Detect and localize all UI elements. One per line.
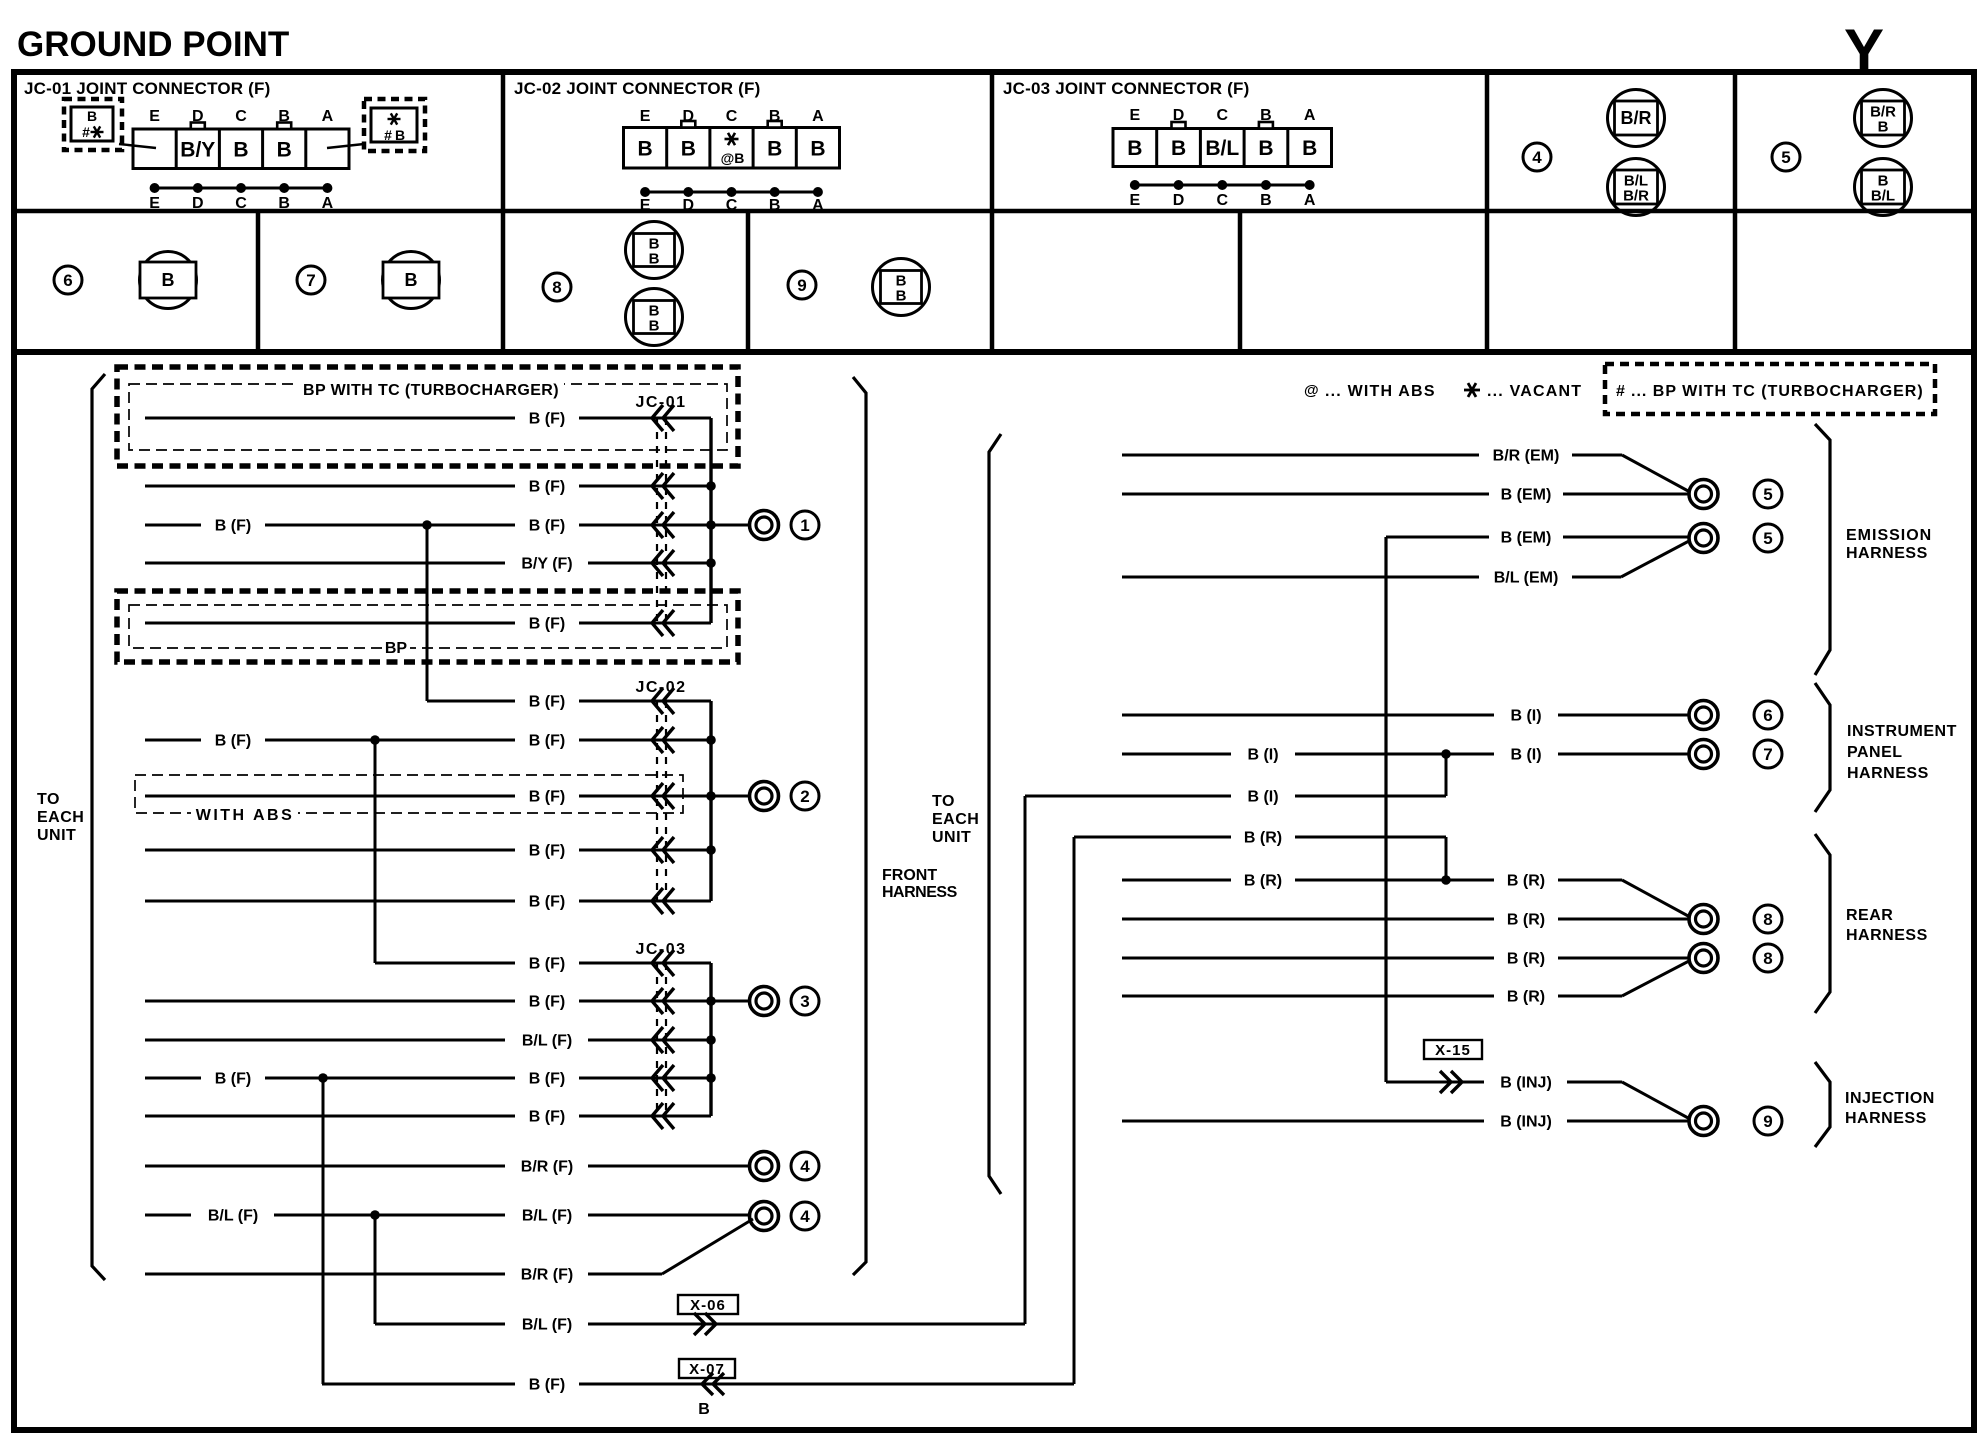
branch vertical from B/L wire down to X-06 — [370, 1210, 380, 1324]
wire B/R (F) to ground 4 upper — [145, 1159, 750, 1176]
svg-text:9: 9 — [797, 276, 806, 295]
trunk vertical from B (EM) lower down to X-15 — [1384, 537, 1387, 1082]
wire B (R) diagonal to ground 8 upper — [1122, 873, 1690, 918]
wire B (R) from X-07 joining rear feed — [1074, 830, 1446, 847]
svg-text:B: B — [1260, 107, 1272, 124]
legend BP with TC dashed box — [1605, 364, 1935, 414]
wire B (I) to ground 7 — [1122, 747, 1689, 764]
svg-text:B: B — [87, 108, 97, 124]
svg-text:B/R: B/R — [1621, 108, 1652, 128]
wire B/L (F) JC-03 pin C — [145, 1027, 711, 1053]
svg-text:B (F): B (F) — [529, 789, 565, 806]
svg-text:B: B — [1878, 119, 1889, 136]
ground number 7 — [1754, 740, 1782, 768]
svg-text:#: # — [1616, 383, 1625, 400]
dashed option box BP WITH TC (TURBOCHARGER) thick — [117, 367, 738, 466]
label TO EACH UNIT right — [932, 793, 979, 846]
ground number 1 — [791, 511, 819, 539]
label TO EACH UNIT left — [37, 791, 84, 844]
connector X-07 label box — [679, 1359, 735, 1378]
wire B (F) JC-01 pin E — [145, 405, 711, 431]
svg-text:EACH: EACH — [932, 811, 979, 828]
svg-text:A: A — [322, 195, 334, 212]
svg-text:D: D — [192, 195, 204, 212]
ground number 8 upper — [1754, 905, 1782, 933]
svg-text:B: B — [767, 137, 782, 160]
svg-text:B (F): B (F) — [215, 518, 251, 535]
ground number 4 upper — [791, 1152, 819, 1180]
wire B (F) JC-02 pin A — [145, 888, 711, 914]
wire B (F) JC-01 pin A (BP) — [145, 610, 711, 636]
svg-text:B: B — [1127, 137, 1142, 160]
svg-text:@: @ — [1304, 382, 1319, 399]
svg-text:B/R (EM): B/R (EM) — [1493, 448, 1560, 465]
svg-text:#: # — [384, 127, 392, 143]
svg-text:EMISSION: EMISSION — [1846, 527, 1932, 544]
wire B (F) through X-07 to rear harness — [322, 1373, 1074, 1395]
svg-text:B (F): B (F) — [529, 518, 565, 535]
svg-text:B (EM): B (EM) — [1501, 487, 1552, 504]
ground 4 connector circle B/L B/R — [1608, 159, 1665, 216]
emission harness bracket — [1815, 424, 1830, 675]
ground symbol 4 lower — [750, 1202, 779, 1231]
svg-text:D: D — [683, 108, 695, 125]
svg-text:B (R): B (R) — [1507, 989, 1545, 1006]
svg-text:INSTRUMENT: INSTRUMENT — [1847, 723, 1957, 740]
svg-text:4: 4 — [800, 1207, 810, 1226]
wire B (F) JC-01 pin C to ground 1 — [145, 512, 750, 538]
ground symbol 5 upper — [1689, 480, 1718, 509]
svg-text:8: 8 — [1763, 949, 1772, 968]
svg-text:4: 4 — [1532, 148, 1542, 167]
svg-text:B/L (F): B/L (F) — [522, 1317, 572, 1334]
svg-text:B/L: B/L — [1871, 188, 1895, 205]
svg-text:HARNESS: HARNESS — [1845, 1110, 1927, 1127]
wire B (EM) to ground 5 upper — [1122, 487, 1689, 504]
ground symbol 8 upper — [1689, 905, 1718, 934]
label INJECTION HARNESS — [1845, 1090, 1935, 1127]
svg-text:B (I): B (I) — [1510, 708, 1541, 725]
ground 5 connector circle B/R B — [1855, 90, 1912, 147]
injection harness bracket — [1815, 1062, 1830, 1147]
ground 9 connector circle B B — [873, 259, 930, 316]
JC-02 joint connector cell title — [514, 79, 761, 98]
ground point 7 summary cell — [297, 266, 325, 294]
svg-text:B (I): B (I) — [1247, 789, 1278, 806]
JC-03 label — [635, 941, 686, 958]
wire B (INJ) through X-15 diagonal to ground 9 — [1386, 1071, 1690, 1119]
wire B (F) JC-02 pin B — [145, 837, 711, 863]
svg-text:B/Y (F): B/Y (F) — [521, 556, 572, 573]
wire B (F) JC-03 pin B — [145, 1065, 711, 1091]
svg-text:E: E — [1130, 107, 1141, 124]
svg-text:B (INJ): B (INJ) — [1500, 1075, 1552, 1092]
svg-text:B (F): B (F) — [529, 956, 565, 973]
svg-text:A: A — [1304, 192, 1316, 209]
svg-text:B/L (F): B/L (F) — [208, 1208, 258, 1225]
svg-text:B: B — [395, 127, 405, 143]
branch vertical from JC-02 pin D wire down to JC-03 — [370, 735, 380, 963]
svg-text:B: B — [405, 270, 418, 290]
wire B (INJ) to ground 9 — [1122, 1114, 1689, 1131]
wire B (EM) to ground 5 lower — [1386, 530, 1689, 547]
instrument panel harness bracket — [1815, 683, 1830, 812]
svg-text:B (F): B (F) — [529, 1109, 565, 1126]
svg-text:B (F): B (F) — [529, 894, 565, 911]
svg-text:B/L (EM): B/L (EM) — [1494, 570, 1559, 587]
ground 4 connector circle B/R — [1608, 90, 1665, 147]
JC-03 collector vertical — [706, 963, 716, 1116]
ground 5 connector circle B B/L — [1855, 159, 1912, 216]
svg-text:B (R): B (R) — [1507, 873, 1545, 890]
svg-text:BP WITH TC (TURBOCHARGER): BP WITH TC (TURBOCHARGER) — [303, 382, 559, 399]
JC-01 dashed option box right (* #B) — [327, 99, 425, 151]
wire B/R (EM) diagonal to ground 5 upper — [1122, 448, 1690, 493]
svg-text:E: E — [149, 195, 160, 212]
svg-text:D: D — [1173, 107, 1185, 124]
JC-01 joint connector cell title — [24, 79, 271, 98]
JC-02 label — [635, 679, 686, 696]
ground symbol 2 — [750, 782, 779, 811]
JC-01 connector body — [133, 108, 349, 212]
svg-text:C: C — [1216, 192, 1228, 209]
ground point 4 summary cell — [1523, 143, 1551, 171]
svg-text:A: A — [322, 108, 334, 125]
svg-text:B: B — [896, 288, 907, 305]
svg-text:B (I): B (I) — [1510, 747, 1541, 764]
svg-text:JC-02: JC-02 — [635, 679, 686, 696]
ground symbol 4 upper — [750, 1152, 779, 1181]
legend with ABS — [1304, 382, 1436, 400]
svg-text:PANEL: PANEL — [1847, 744, 1903, 761]
svg-text:B: B — [769, 197, 781, 214]
svg-text:... VACANT: ... VACANT — [1487, 383, 1582, 400]
wire B/L (F) through X-06 to instrument panel — [375, 1313, 1025, 1335]
ground symbol 8 lower — [1689, 944, 1718, 973]
junction vertical B (R) — [1441, 837, 1451, 885]
wire B (I) from X-06 joining ground 7 wire — [1025, 789, 1446, 806]
svg-text:B (R): B (R) — [1244, 830, 1282, 847]
svg-text:D: D — [1173, 192, 1185, 209]
svg-text:B (F): B (F) — [529, 479, 565, 496]
wire B (F) JC-03 pin D to ground 3 — [145, 988, 750, 1014]
svg-text:INJECTION: INJECTION — [1845, 1090, 1935, 1107]
svg-text:B: B — [278, 195, 290, 212]
svg-text:B/L: B/L — [1205, 137, 1239, 160]
svg-text:B (F): B (F) — [529, 411, 565, 428]
svg-text:B (R): B (R) — [1244, 873, 1282, 890]
JC-02 connector dashed bus — [657, 701, 666, 901]
JC-01 connector dashed bus — [657, 418, 666, 623]
branch vertical from JC-03 pin B wire down to X-07 — [318, 1073, 328, 1384]
wire B/Y (F) JC-01 pin B — [145, 550, 711, 576]
JC-01 label — [635, 394, 686, 411]
svg-text:HARNESS: HARNESS — [882, 884, 958, 901]
svg-text:4: 4 — [800, 1157, 810, 1176]
svg-text:B (F): B (F) — [529, 843, 565, 860]
svg-text:FRONT: FRONT — [882, 867, 937, 884]
ground number 9 — [1754, 1107, 1782, 1135]
ground 8 connector circle B B lower — [626, 289, 683, 346]
dashed option box WITH ABS — [135, 775, 683, 824]
dashed option box BP WITH TC thin inner — [129, 382, 727, 450]
branch vertical from JC-01 pin C wire down to JC-02 — [422, 520, 432, 701]
svg-text:B: B — [1171, 137, 1186, 160]
ground point 8 summary cell — [543, 273, 571, 301]
svg-text:JC-02 JOINT CONNECTOR (F): JC-02 JOINT CONNECTOR (F) — [514, 79, 761, 98]
ground symbol 9 — [1689, 1107, 1718, 1136]
wire B (F) JC-02 pin E — [427, 688, 711, 714]
svg-text:B/L (F): B/L (F) — [522, 1208, 572, 1225]
JC-03 joint connector cell title — [1003, 79, 1250, 98]
svg-text:UNIT: UNIT — [37, 827, 76, 844]
svg-text:... BP WITH TC (TURBOCHARGER): ... BP WITH TC (TURBOCHARGER) — [1631, 383, 1924, 400]
svg-text:B/L (F): B/L (F) — [522, 1033, 572, 1050]
svg-text:E: E — [1130, 192, 1141, 209]
svg-text:HARNESS: HARNESS — [1847, 765, 1929, 782]
wire B (R) diagonal to ground 8 lower — [1122, 961, 1689, 1006]
JC-03 connector body — [1113, 107, 1332, 209]
JC-03 connector dashed bus — [657, 963, 666, 1116]
JC-02 connector body — [624, 108, 840, 214]
main diagram frame — [14, 352, 1974, 1430]
svg-text:C: C — [726, 108, 738, 125]
svg-text:GROUND POINT: GROUND POINT — [17, 25, 289, 64]
svg-text:X-06: X-06 — [690, 1297, 726, 1314]
ground point 6 summary cell — [54, 266, 82, 294]
svg-text:B/R (F): B/R (F) — [521, 1159, 573, 1176]
svg-text:REAR: REAR — [1846, 907, 1893, 924]
svg-text:A: A — [812, 197, 824, 214]
label INSTRUMENT PANEL HARNESS — [1847, 723, 1957, 782]
ground symbol 5 lower — [1689, 524, 1718, 553]
junction vertical B (I) — [1441, 749, 1451, 796]
ground 6 connector circle B — [140, 252, 197, 309]
svg-text:#: # — [82, 124, 90, 140]
svg-text:3: 3 — [800, 992, 809, 1011]
JC-01 dashed option box left (B #*) — [64, 99, 156, 150]
svg-text:B (F): B (F) — [529, 1071, 565, 1088]
svg-text:B: B — [278, 108, 290, 125]
svg-text:B: B — [1302, 137, 1317, 160]
svg-text:TO: TO — [932, 793, 955, 810]
svg-text:B (R): B (R) — [1507, 951, 1545, 968]
svg-text:B/R: B/R — [1623, 188, 1649, 205]
svg-text:B: B — [233, 138, 248, 161]
JC-02 collector vertical — [706, 701, 716, 901]
svg-text:HARNESS: HARNESS — [1846, 927, 1928, 944]
svg-text:HARNESS: HARNESS — [1846, 545, 1928, 562]
svg-text:B: B — [1260, 192, 1272, 209]
ground number 8 lower — [1754, 944, 1782, 972]
svg-text:C: C — [1216, 107, 1228, 124]
svg-text:B: B — [681, 137, 696, 160]
svg-text:C: C — [235, 195, 247, 212]
svg-text:7: 7 — [306, 271, 315, 290]
svg-text:2: 2 — [800, 787, 809, 806]
wire B/L (F) to ground 4 lower — [145, 1208, 750, 1225]
legend vacant — [1464, 383, 1582, 400]
ground 8 connector circle B B upper — [626, 222, 683, 279]
ground symbol 3 — [750, 987, 779, 1016]
ground number 6 — [1754, 701, 1782, 729]
ground 7 connector circle B — [383, 252, 440, 309]
table frame — [14, 72, 1974, 352]
label B below X-07 — [698, 1401, 710, 1418]
svg-text:E: E — [640, 108, 651, 125]
svg-text:... WITH ABS: ... WITH ABS — [1325, 383, 1436, 400]
svg-text:JC-01 JOINT CONNECTOR (F): JC-01 JOINT CONNECTOR (F) — [24, 79, 271, 98]
ground symbol 1 — [750, 511, 779, 540]
connector X-06 label box — [678, 1295, 738, 1314]
wire B/L (EM) diagonal to ground 5 lower — [1122, 541, 1689, 587]
right bracket of front harness section — [853, 377, 866, 1275]
ground symbol 6 — [1689, 701, 1718, 730]
dashed option box BP thin inner — [129, 605, 727, 657]
svg-text:B: B — [638, 137, 653, 160]
svg-text:7: 7 — [1763, 745, 1772, 764]
svg-text:B (R): B (R) — [1507, 912, 1545, 929]
svg-text:5: 5 — [1763, 485, 1772, 504]
dashed option box BP thick — [117, 591, 738, 662]
svg-text:B (F): B (F) — [529, 733, 565, 750]
svg-text:8: 8 — [552, 278, 561, 297]
svg-text:A: A — [812, 108, 824, 125]
svg-text:JC-03 JOINT CONNECTOR (F): JC-03 JOINT CONNECTOR (F) — [1003, 79, 1250, 98]
wire B (R) to ground 8 upper — [1122, 912, 1689, 929]
ground symbol 7 — [1689, 740, 1718, 769]
svg-text:B: B — [649, 318, 660, 335]
svg-text:8: 8 — [1763, 910, 1772, 929]
svg-text:B (INJ): B (INJ) — [1500, 1114, 1552, 1131]
JC-01 collector vertical — [706, 418, 716, 623]
svg-text:9: 9 — [1763, 1112, 1772, 1131]
svg-text:B (F): B (F) — [215, 1071, 251, 1088]
svg-text:B/R (F): B/R (F) — [521, 1267, 573, 1284]
vertical riser of X-06 wire — [1024, 796, 1027, 1324]
ground number 2 — [791, 782, 819, 810]
svg-text:B (F): B (F) — [529, 616, 565, 633]
wire B (F) JC-01 pin D — [145, 473, 711, 499]
wire B (I) to ground 6 — [1122, 708, 1689, 725]
svg-text:@B: @B — [721, 150, 745, 166]
svg-text:B: B — [810, 137, 825, 160]
svg-text:E: E — [640, 197, 651, 214]
svg-text:1: 1 — [800, 516, 809, 535]
svg-text:C: C — [235, 108, 247, 125]
svg-text:JC-03: JC-03 — [635, 941, 686, 958]
ground number 5 upper — [1754, 480, 1782, 508]
svg-text:B (F): B (F) — [529, 994, 565, 1011]
svg-text:B: B — [649, 251, 660, 268]
svg-text:6: 6 — [1763, 706, 1772, 725]
svg-text:6: 6 — [63, 271, 72, 290]
svg-text:E: E — [149, 108, 160, 125]
left bracket TO EACH UNIT (front) — [92, 374, 105, 1280]
svg-text:EACH: EACH — [37, 809, 84, 826]
svg-text:WITH ABS: WITH ABS — [196, 807, 295, 824]
svg-text:B: B — [277, 138, 292, 161]
connector X-15 label box — [1424, 1040, 1482, 1059]
page title GROUND POINT — [17, 25, 289, 64]
svg-text:B: B — [698, 1401, 710, 1418]
svg-text:D: D — [683, 197, 695, 214]
svg-text:B (F): B (F) — [215, 733, 251, 750]
wire B/R (F) diagonal to ground 4 lower — [145, 1219, 753, 1284]
wire B (F) JC-03 pin E — [375, 950, 711, 976]
ground point 5 summary cell — [1772, 143, 1800, 171]
svg-text:B: B — [769, 108, 781, 125]
vertical riser of X-07 wire — [1073, 837, 1076, 1384]
svg-text:B (I): B (I) — [1247, 747, 1278, 764]
wire B (R) to ground 8 lower — [1122, 951, 1689, 968]
wire B (F) JC-03 pin A — [145, 1103, 711, 1129]
svg-text:B: B — [162, 270, 175, 290]
label FRONT HARNESS — [882, 867, 958, 901]
page code Y — [1844, 17, 1884, 84]
ground point 9 summary cell — [788, 271, 816, 299]
rear harness bracket — [1815, 834, 1830, 1013]
svg-text:D: D — [192, 108, 204, 125]
svg-text:5: 5 — [1781, 148, 1790, 167]
svg-text:X-15: X-15 — [1435, 1042, 1471, 1059]
svg-text:B (EM): B (EM) — [1501, 530, 1552, 547]
svg-text:BP: BP — [385, 640, 408, 657]
svg-text:B/Y: B/Y — [180, 138, 215, 161]
svg-text:B (F): B (F) — [529, 694, 565, 711]
svg-text:TO: TO — [37, 791, 60, 808]
svg-text:5: 5 — [1763, 529, 1772, 548]
ground number 4 lower — [791, 1202, 819, 1230]
left bracket TO EACH UNIT (rear section) — [989, 434, 1001, 1194]
ground number 3 — [791, 987, 819, 1015]
svg-text:B: B — [1258, 137, 1273, 160]
ground number 5 lower — [1754, 524, 1782, 552]
svg-text:B (F): B (F) — [529, 1377, 565, 1394]
label EMISSION HARNESS — [1846, 527, 1932, 562]
wire B (F) JC-02 pin D — [145, 727, 711, 753]
svg-text:A: A — [1304, 107, 1316, 124]
svg-text:UNIT: UNIT — [932, 829, 971, 846]
wire B (F) JC-02 pin C (with ABS) to ground 2 — [145, 783, 750, 809]
label REAR HARNESS — [1846, 907, 1928, 944]
svg-text:C: C — [726, 197, 738, 214]
